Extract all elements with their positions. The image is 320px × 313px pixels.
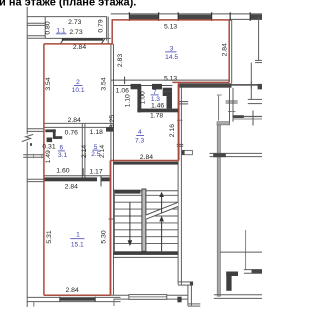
svg-text:5.13: 5.13 bbox=[164, 76, 177, 83]
svg-text:1.06: 1.06 bbox=[116, 88, 129, 95]
svg-text:1.46: 1.46 bbox=[151, 103, 164, 110]
svg-text:2: 2 bbox=[76, 79, 80, 86]
svg-text:2.84: 2.84 bbox=[221, 43, 228, 56]
svg-text:0.31: 0.31 bbox=[42, 144, 55, 151]
svg-text:3.54: 3.54 bbox=[45, 77, 52, 90]
svg-text:1.10: 1.10 bbox=[124, 94, 131, 107]
svg-text:0.79: 0.79 bbox=[97, 19, 104, 32]
svg-text:5.13: 5.13 bbox=[164, 23, 177, 30]
svg-text:3.54: 3.54 bbox=[101, 77, 108, 90]
svg-text:1: 1 bbox=[76, 232, 80, 239]
svg-text:1.1: 1.1 bbox=[56, 27, 65, 34]
svg-text:15.1: 15.1 bbox=[71, 242, 84, 249]
svg-text:и на этаже (плане этажа).: и на этаже (плане этажа). bbox=[0, 0, 136, 8]
svg-text:2.84: 2.84 bbox=[65, 287, 78, 294]
svg-text:3: 3 bbox=[170, 45, 174, 52]
svg-text:5.30: 5.30 bbox=[101, 230, 108, 243]
svg-text:0.76: 0.76 bbox=[65, 129, 78, 136]
svg-text:14.5: 14.5 bbox=[165, 54, 178, 61]
svg-text:0.80: 0.80 bbox=[45, 21, 52, 34]
svg-text:2.84: 2.84 bbox=[73, 44, 86, 51]
svg-text:1.3: 1.3 bbox=[151, 96, 160, 103]
svg-text:10.1: 10.1 bbox=[72, 87, 85, 94]
svg-text:1.60: 1.60 bbox=[56, 167, 69, 174]
svg-text:3.25: 3.25 bbox=[109, 115, 116, 128]
svg-text:2.84: 2.84 bbox=[140, 154, 153, 161]
svg-text:2.83: 2.83 bbox=[117, 54, 124, 67]
svg-text:7.3: 7.3 bbox=[135, 137, 144, 144]
svg-text:3.1: 3.1 bbox=[58, 152, 67, 159]
svg-text:2.73: 2.73 bbox=[68, 19, 81, 26]
svg-text:1.49: 1.49 bbox=[45, 150, 52, 163]
svg-text:2.16: 2.16 bbox=[169, 124, 176, 137]
svg-text:5.31: 5.31 bbox=[46, 230, 53, 243]
svg-text:4: 4 bbox=[138, 129, 142, 136]
svg-text:1.18: 1.18 bbox=[90, 129, 103, 136]
svg-text:1.78: 1.78 bbox=[150, 113, 163, 120]
svg-text:2.14: 2.14 bbox=[81, 145, 88, 158]
svg-text:2.73: 2.73 bbox=[69, 29, 82, 36]
svg-text:2.5: 2.5 bbox=[91, 151, 100, 158]
svg-text:2.84: 2.84 bbox=[65, 183, 78, 190]
svg-text:1.17: 1.17 bbox=[89, 169, 102, 176]
svg-text:1.00: 1.00 bbox=[139, 91, 146, 104]
svg-text:2.84: 2.84 bbox=[68, 117, 81, 124]
